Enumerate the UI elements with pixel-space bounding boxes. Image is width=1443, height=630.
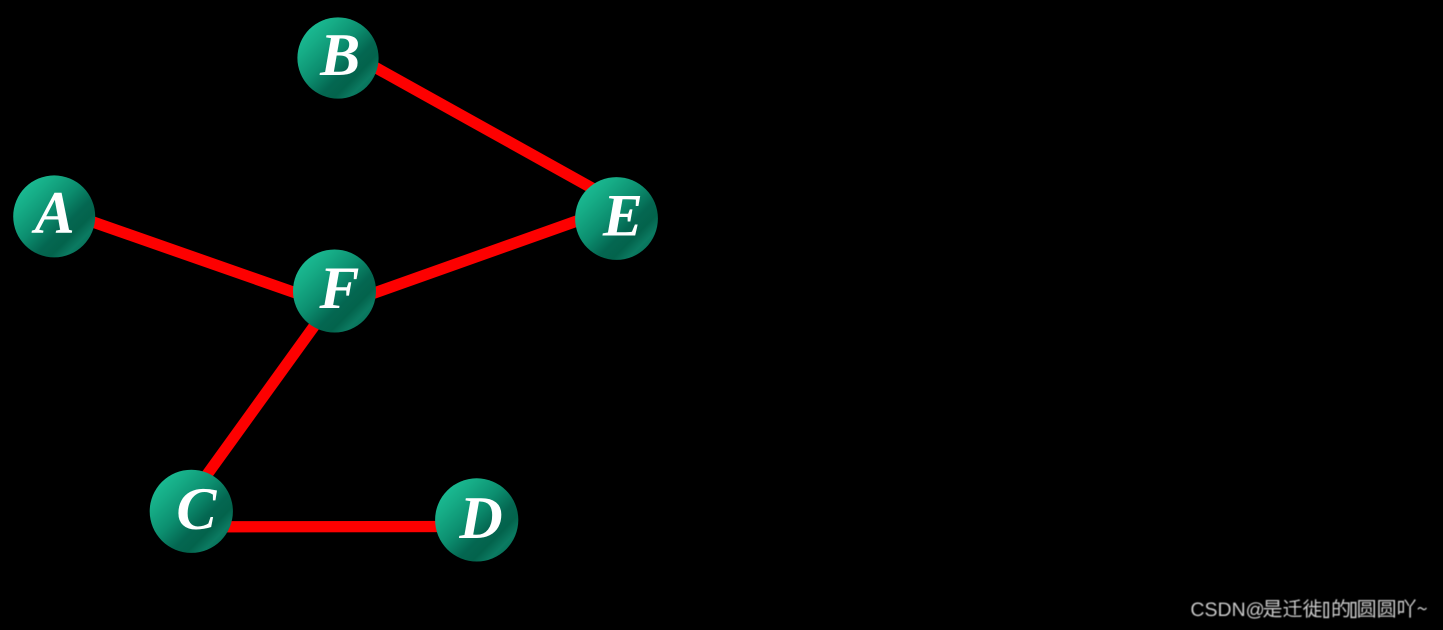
edge F-E — [340, 209, 612, 306]
svg-text:C: C — [176, 476, 217, 542]
node A — [13, 175, 95, 257]
node C — [150, 470, 233, 553]
node B — [297, 17, 378, 98]
edge F-C — [188, 293, 338, 501]
edge B-E — [352, 54, 613, 199]
svg-text:B: B — [319, 22, 360, 88]
node E — [575, 177, 658, 260]
svg-text:D: D — [458, 485, 502, 551]
svg-text:E: E — [602, 183, 643, 249]
svg-text:F: F — [318, 255, 359, 321]
node F — [293, 250, 376, 333]
node D — [435, 478, 518, 561]
edge C-D — [202, 521, 461, 533]
svg-text:A: A — [31, 179, 75, 245]
edge A-F — [54, 209, 333, 307]
watermark CSDN @username — [1191, 599, 1427, 619]
